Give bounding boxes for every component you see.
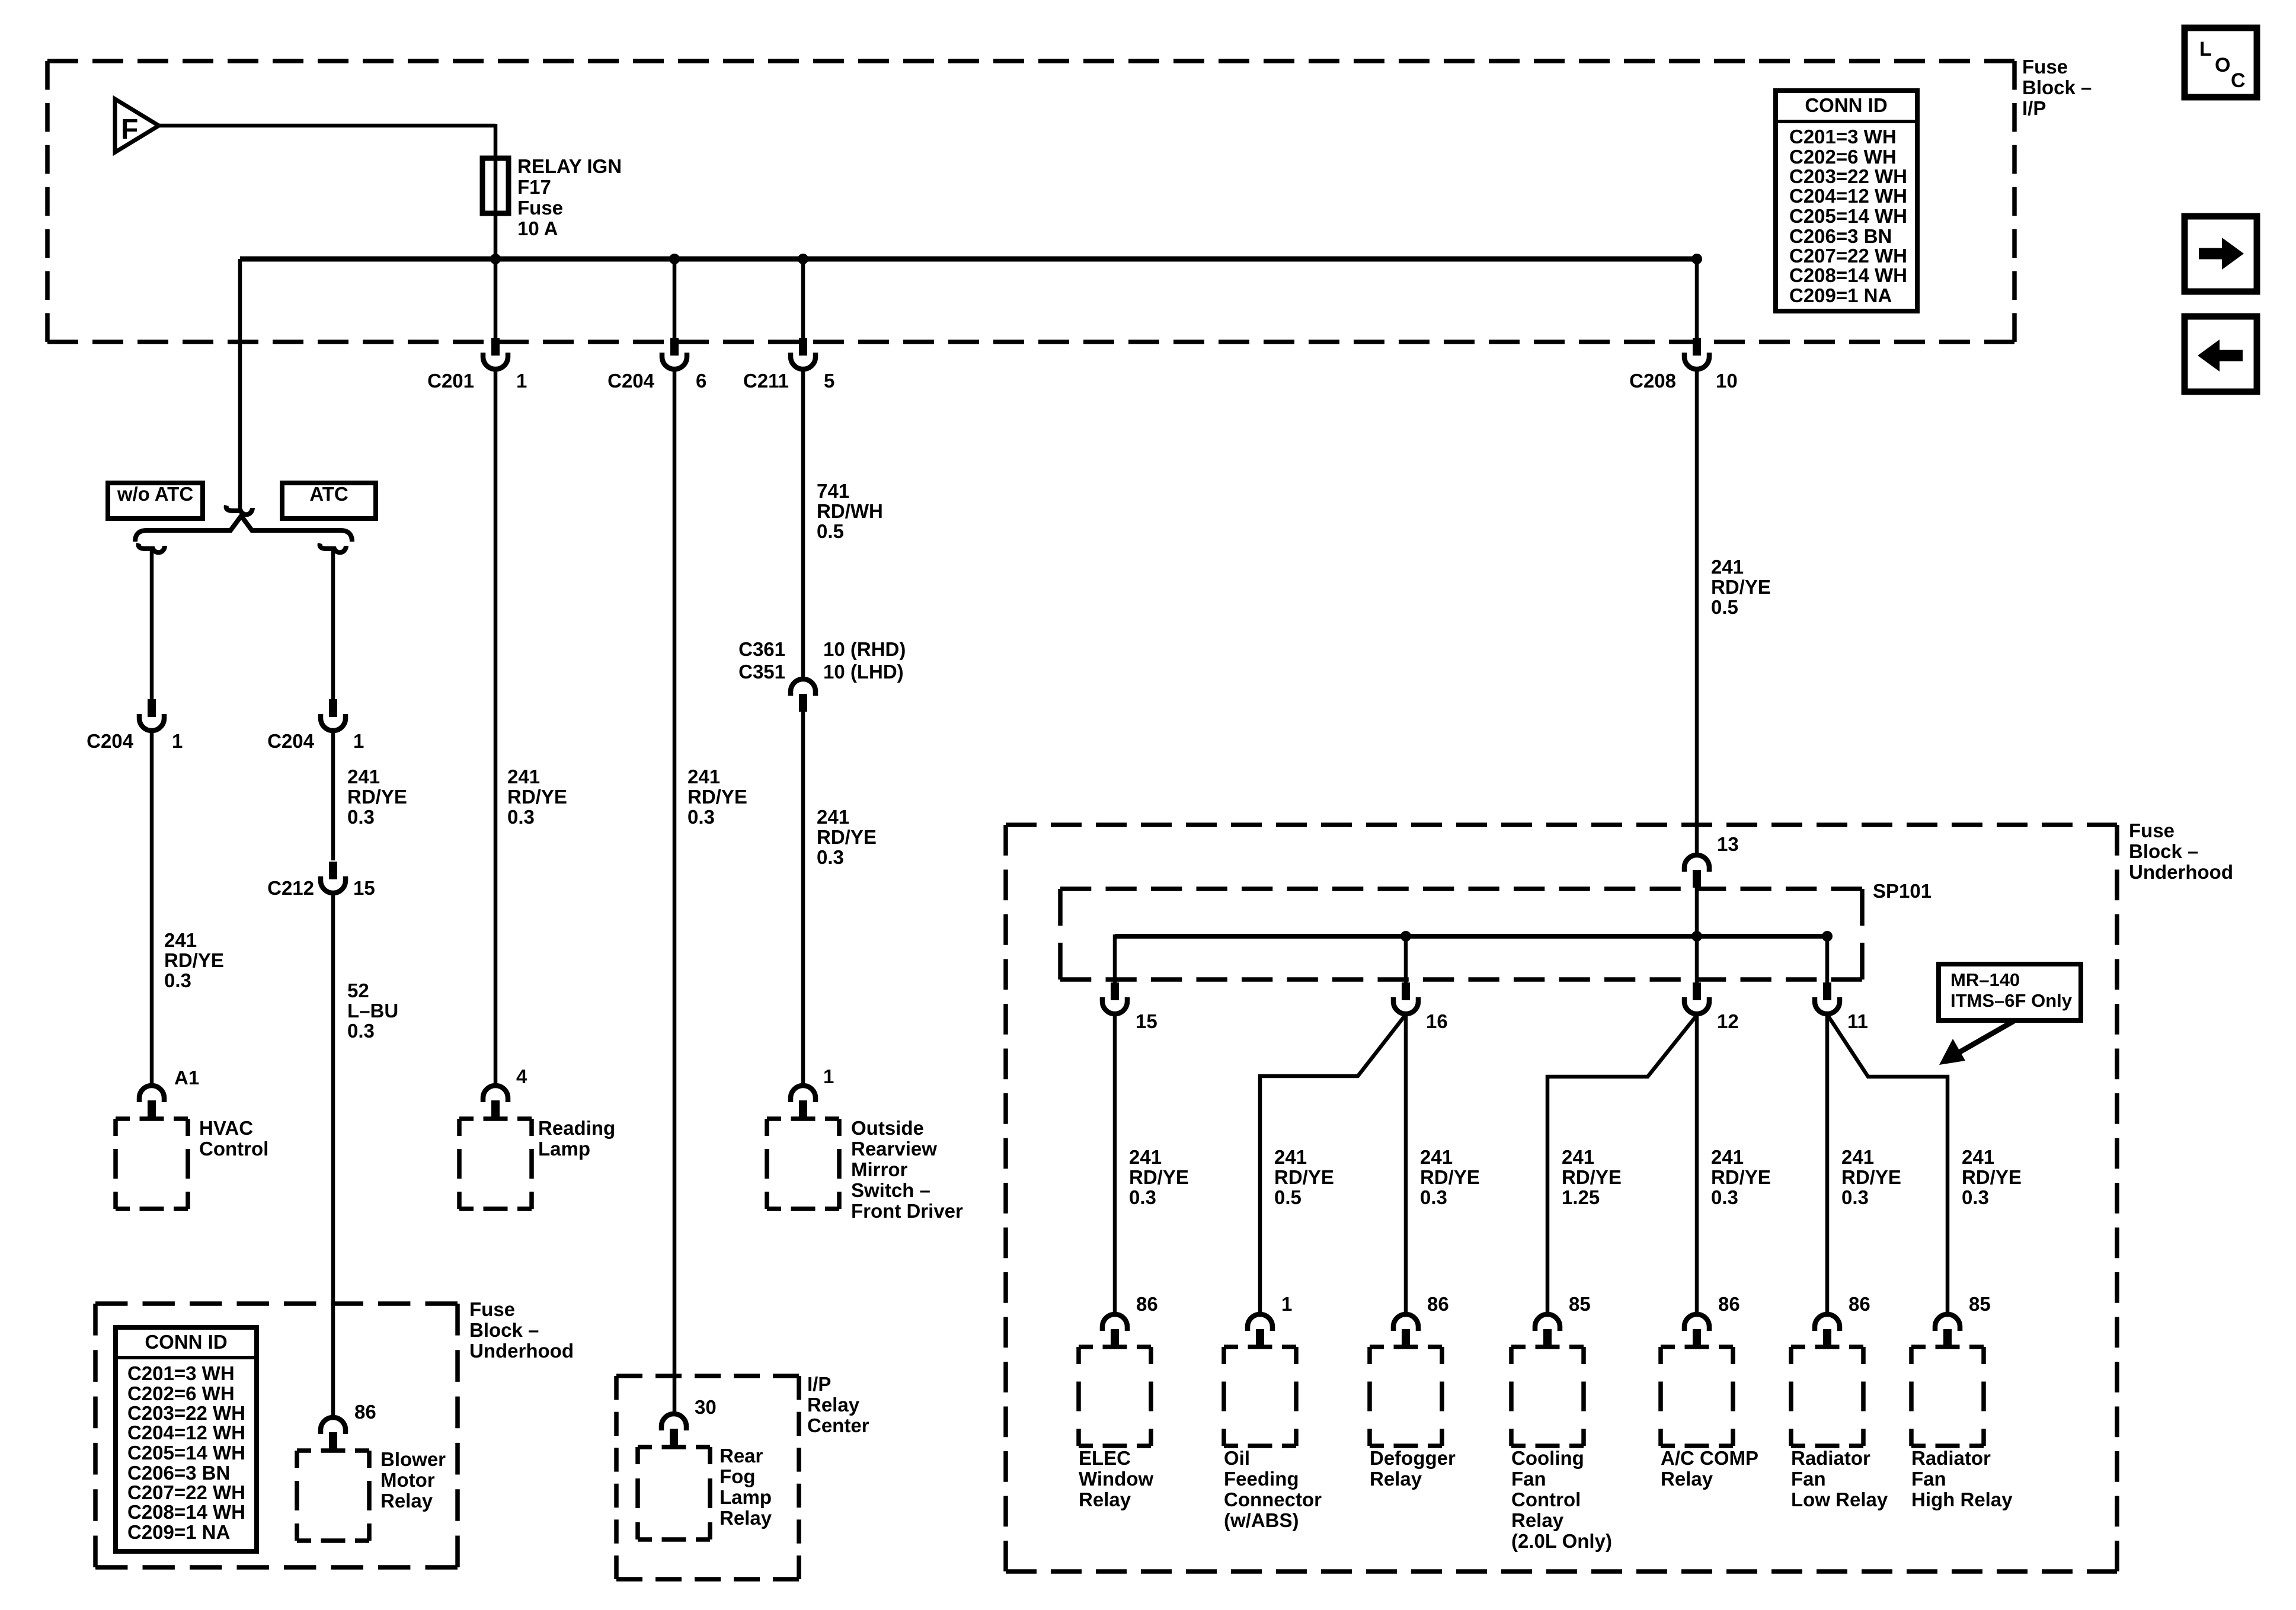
svg-text:C204: C204 — [607, 370, 655, 392]
wire to mirror switch — [801, 712, 805, 1086]
branch hook w/o ATC — [139, 543, 165, 552]
Oil Feeding Connector box — [1224, 1347, 1296, 1446]
CONN ID table (left) — [116, 1327, 257, 1551]
svg-text:w/o ATC: w/o ATC — [117, 483, 193, 505]
svg-text:I/P: I/P — [807, 1373, 831, 1395]
svg-text:86: 86 — [354, 1401, 376, 1423]
feed arrow F — [115, 99, 159, 152]
svg-text:11: 11 — [1847, 1010, 1868, 1032]
svg-text:Fuse: Fuse — [2022, 56, 2068, 78]
svg-text:1: 1 — [823, 1065, 834, 1087]
svg-text:Reading: Reading — [538, 1117, 615, 1139]
svg-text:0.3: 0.3 — [1962, 1186, 1989, 1208]
svg-text:F17: F17 — [517, 176, 551, 198]
connector C361/C351 — [791, 679, 816, 696]
A/C COMP Relay box — [1661, 1347, 1733, 1446]
svg-text:10 (LHD): 10 (LHD) — [823, 661, 904, 683]
svg-text:RD/YE: RD/YE — [1962, 1166, 2022, 1188]
svg-text:Relay: Relay — [1511, 1509, 1564, 1531]
svg-text:0.3: 0.3 — [687, 806, 715, 828]
Fuse Block - Underhood dashed box (left) — [95, 1304, 458, 1567]
svg-text:Front Driver: Front Driver — [851, 1200, 963, 1222]
svg-text:L: L — [2199, 38, 2212, 60]
svg-text:C202=6 WH: C202=6 WH — [127, 1382, 235, 1404]
connector 86 Radiator Fan Low Relay — [1815, 1314, 1840, 1331]
svg-text:Window: Window — [1079, 1468, 1153, 1490]
svg-text:C211: C211 — [743, 370, 789, 392]
right arrow box — [2185, 216, 2257, 292]
connector 85 Cooling Fan Control Relay — [1535, 1314, 1560, 1331]
svg-text:Rear: Rear — [720, 1445, 763, 1467]
Defogger Relay box — [1370, 1347, 1442, 1446]
svg-text:RD/YE: RD/YE — [1420, 1166, 1480, 1188]
Radiator Fan High Relay box — [1911, 1347, 1984, 1446]
svg-text:Underhood: Underhood — [469, 1340, 574, 1362]
connector 12 — [1693, 982, 1701, 1000]
svg-text:10: 10 — [1716, 370, 1738, 392]
connector 13 — [1684, 855, 1709, 872]
svg-text:15: 15 — [1136, 1010, 1157, 1032]
svg-text:Relay: Relay — [1079, 1489, 1131, 1510]
Outside Rearview Mirror Switch box — [767, 1119, 839, 1209]
svg-text:16: 16 — [1426, 1010, 1448, 1032]
svg-text:241: 241 — [1562, 1146, 1594, 1168]
Rear Fog Lamp Relay box — [638, 1447, 710, 1539]
svg-text:C209=1 NA: C209=1 NA — [127, 1521, 230, 1543]
connector C201 pin 1 — [491, 338, 500, 356]
connector 4 reading lamp — [483, 1086, 508, 1102]
svg-text:C203=22 WH: C203=22 WH — [127, 1402, 245, 1424]
svg-text:85: 85 — [1569, 1293, 1591, 1315]
connector 16 — [1402, 982, 1410, 1000]
svg-text:0.3: 0.3 — [507, 806, 535, 828]
connector C212 pin 15 — [329, 862, 337, 879]
svg-text:86: 86 — [1427, 1293, 1449, 1315]
svg-text:Fuse: Fuse — [517, 197, 563, 219]
svg-text:1: 1 — [353, 730, 364, 752]
connector C204 pin 6 — [670, 338, 679, 356]
Radiator Fan Low Relay box — [1791, 1347, 1863, 1446]
svg-text:Control: Control — [199, 1138, 268, 1160]
connector C204 pin 1 (ATC) — [329, 699, 337, 717]
svg-text:Relay: Relay — [380, 1490, 433, 1512]
junction dot 11 — [1822, 931, 1833, 942]
svg-text:C351: C351 — [738, 661, 785, 683]
Fuse Block - Underhood dashed box (right) — [1006, 825, 2117, 1571]
svg-text:0.3: 0.3 — [1711, 1186, 1738, 1208]
svg-text:0.3: 0.3 — [1420, 1186, 1447, 1208]
svg-text:Relay: Relay — [1661, 1468, 1713, 1490]
svg-text:C204: C204 — [267, 730, 315, 752]
svg-text:12: 12 — [1717, 1010, 1739, 1032]
svg-text:Fuse: Fuse — [2129, 820, 2175, 841]
svg-text:A/C COMP: A/C COMP — [1661, 1447, 1758, 1469]
svg-text:Lamp: Lamp — [720, 1486, 772, 1508]
svg-text:Fan: Fan — [1511, 1468, 1546, 1490]
svg-text:241: 241 — [1711, 1146, 1744, 1168]
svg-text:RD/YE: RD/YE — [817, 826, 877, 848]
svg-text:C207=22 WH: C207=22 WH — [1789, 245, 1907, 267]
HVAC Control box — [116, 1119, 188, 1209]
svg-text:Underhood: Underhood — [2129, 861, 2233, 883]
svg-text:C208=14 WH: C208=14 WH — [127, 1501, 245, 1523]
junction dot C208 column — [1691, 254, 1702, 264]
svg-text:86: 86 — [1849, 1293, 1870, 1315]
svg-text:241: 241 — [1129, 1146, 1162, 1168]
wire 11 branch to radiator fan high relay — [1827, 1014, 1948, 1314]
svg-text:0.3: 0.3 — [1129, 1186, 1156, 1208]
svg-text:C201=3 WH: C201=3 WH — [1789, 126, 1897, 148]
svg-text:C203=22 WH: C203=22 WH — [1789, 165, 1907, 187]
svg-text:0.3: 0.3 — [817, 846, 844, 868]
wire 11 to radiator fan low relay — [1825, 1014, 1830, 1314]
option split brace — [135, 517, 352, 542]
svg-text:RD/YE: RD/YE — [1711, 576, 1771, 598]
svg-text:C201=3 WH: C201=3 WH — [127, 1362, 235, 1384]
svg-text:1: 1 — [516, 370, 527, 392]
svg-text:Fog: Fog — [720, 1465, 755, 1487]
drop to 15 — [1113, 934, 1117, 985]
wire F to fuse column — [158, 124, 495, 128]
connector C208 pin 10 — [1693, 338, 1701, 356]
svg-text:C204=12 WH: C204=12 WH — [127, 1422, 245, 1443]
svg-text:Blower: Blower — [380, 1448, 446, 1470]
svg-text:C205=14 WH: C205=14 WH — [127, 1442, 245, 1464]
svg-text:Radiator: Radiator — [1791, 1447, 1870, 1469]
Cooling Fan Control Relay box — [1511, 1347, 1584, 1446]
svg-text:ELEC: ELEC — [1079, 1447, 1131, 1469]
connector 86 blower motor relay — [321, 1417, 346, 1434]
junction dot 16 — [1400, 931, 1411, 942]
option box ATC — [282, 483, 376, 518]
wire to reading lamp — [494, 371, 498, 1086]
svg-text:241: 241 — [1711, 556, 1744, 578]
connector 30 rear fog lamp relay — [661, 1414, 686, 1430]
svg-text:5: 5 — [824, 370, 834, 392]
svg-text:RD/YE: RD/YE — [1711, 1166, 1771, 1188]
svg-text:241: 241 — [1962, 1146, 1994, 1168]
wire 16 to defogger relay — [1404, 1014, 1408, 1314]
svg-text:C206=3 BN: C206=3 BN — [1789, 225, 1892, 247]
svg-text:Radiator: Radiator — [1911, 1447, 1991, 1469]
svg-text:O: O — [2215, 54, 2230, 76]
svg-text:Defogger: Defogger — [1370, 1447, 1456, 1469]
wire C212 to blower relay — [331, 895, 335, 1419]
svg-text:(w/ABS): (w/ABS) — [1224, 1509, 1299, 1531]
svg-text:Relay: Relay — [1370, 1468, 1422, 1490]
svg-text:241: 241 — [347, 766, 380, 788]
svg-text:RD/YE: RD/YE — [1841, 1166, 1901, 1188]
wire w/o ATC branch — [150, 551, 154, 699]
left arrow box — [2185, 316, 2257, 392]
svg-text:Switch –: Switch – — [851, 1179, 930, 1201]
connector A1 HVAC — [139, 1086, 164, 1102]
wire to C361 — [801, 371, 805, 679]
svg-text:CONN ID: CONN ID — [145, 1331, 227, 1353]
I/P Relay Center dashed box — [616, 1376, 799, 1579]
svg-text:C209=1 NA: C209=1 NA — [1789, 284, 1892, 306]
junction dot C211 column — [798, 254, 808, 264]
svg-text:C201: C201 — [427, 370, 474, 392]
connector 1 Oil Feeding Connector — [1248, 1314, 1272, 1331]
svg-text:C208=14 WH: C208=14 WH — [1789, 264, 1907, 286]
LOC legend box — [2185, 28, 2257, 97]
svg-text:Fan: Fan — [1911, 1468, 1946, 1490]
svg-text:Block –: Block – — [2129, 840, 2198, 862]
option box w/o ATC — [108, 483, 203, 518]
junction dot C204 column — [669, 254, 680, 264]
svg-text:10 (RHD): 10 (RHD) — [823, 638, 906, 660]
svg-text:C: C — [2231, 69, 2246, 92]
svg-text:C204: C204 — [87, 730, 134, 752]
connector 11 — [1823, 982, 1831, 1000]
svg-text:Fan: Fan — [1791, 1468, 1826, 1490]
svg-text:Relay: Relay — [807, 1394, 860, 1416]
connector 1 mirror switch — [791, 1086, 816, 1102]
wire to fuse block underhood — [1695, 371, 1699, 855]
svg-text:30: 30 — [695, 1396, 717, 1418]
svg-text:MR–140: MR–140 — [1950, 969, 2020, 990]
svg-text:241: 241 — [687, 766, 720, 788]
svg-text:Lamp: Lamp — [538, 1138, 590, 1160]
svg-text:741: 741 — [817, 480, 849, 502]
wire bus to ATC split — [238, 259, 242, 512]
svg-text:Rearview: Rearview — [851, 1138, 937, 1160]
drop to 12 — [1695, 936, 1699, 985]
svg-text:0.3: 0.3 — [164, 969, 191, 991]
svg-text:RD/YE: RD/YE — [164, 949, 224, 971]
svg-text:Motor: Motor — [380, 1469, 435, 1491]
svg-text:Relay: Relay — [720, 1507, 772, 1529]
svg-text:(2.0L Only): (2.0L Only) — [1511, 1530, 1612, 1552]
svg-text:85: 85 — [1969, 1293, 1991, 1315]
svg-text:HVAC: HVAC — [199, 1117, 253, 1139]
svg-text:13: 13 — [1717, 833, 1739, 855]
svg-text:C206=3 BN: C206=3 BN — [127, 1462, 230, 1484]
svg-text:C202=6 WH: C202=6 WH — [1789, 146, 1897, 168]
svg-text:Feeding: Feeding — [1224, 1468, 1299, 1490]
svg-text:Oil: Oil — [1224, 1447, 1250, 1469]
svg-text:Low Relay: Low Relay — [1791, 1489, 1888, 1510]
svg-text:86: 86 — [1136, 1293, 1158, 1315]
svg-text:SP101: SP101 — [1873, 880, 1932, 902]
svg-text:A1: A1 — [174, 1067, 199, 1089]
Reading Lamp box — [459, 1119, 532, 1209]
svg-text:I/P: I/P — [2022, 97, 2046, 119]
Blower Motor Relay box — [297, 1451, 369, 1541]
svg-text:241: 241 — [1841, 1146, 1874, 1168]
svg-text:Block –: Block – — [469, 1319, 539, 1341]
svg-text:C212: C212 — [267, 877, 314, 899]
connector C204 pin 1 (w/o ATC) — [148, 699, 156, 717]
svg-text:241: 241 — [1274, 1146, 1307, 1168]
connector 85 Radiator Fan High Relay — [1935, 1314, 1960, 1331]
svg-text:C208: C208 — [1629, 370, 1676, 392]
svg-text:0.5: 0.5 — [817, 520, 844, 542]
svg-text:Connector: Connector — [1224, 1489, 1322, 1510]
svg-text:0.3: 0.3 — [1841, 1186, 1869, 1208]
junction dot C201 column — [490, 254, 501, 264]
svg-text:RELAY IGN: RELAY IGN — [517, 155, 622, 177]
connector 86 ELEC Window Relay — [1102, 1314, 1127, 1331]
svg-text:L–BU: L–BU — [347, 1000, 398, 1022]
svg-text:1.25: 1.25 — [1562, 1186, 1600, 1208]
MR-140 arrow — [1957, 1021, 2014, 1054]
svg-text:Cooling: Cooling — [1511, 1447, 1584, 1469]
svg-text:ITMS–6F Only: ITMS–6F Only — [1950, 990, 2073, 1011]
svg-text:RD/YE: RD/YE — [1129, 1166, 1189, 1188]
connector 86 Defogger Relay — [1393, 1314, 1418, 1331]
MR-140 ITMS-6F Only callout box — [1939, 964, 2081, 1020]
svg-text:RD/YE: RD/YE — [1274, 1166, 1334, 1188]
svg-text:High Relay: High Relay — [1911, 1489, 2013, 1510]
svg-text:RD/WH: RD/WH — [817, 500, 883, 522]
connector C211 pin 5 — [799, 338, 807, 356]
svg-text:1: 1 — [172, 730, 183, 752]
wire end hook at split — [226, 505, 252, 514]
branch hook ATC — [320, 543, 346, 552]
svg-text:Center: Center — [807, 1414, 869, 1436]
svg-text:241: 241 — [164, 929, 197, 951]
wire C204 to C212 — [331, 732, 335, 860]
SP101 dashed box — [1060, 889, 1862, 980]
svg-text:Control: Control — [1511, 1489, 1581, 1510]
svg-text:4: 4 — [516, 1065, 527, 1087]
svg-text:C207=22 WH: C207=22 WH — [127, 1481, 245, 1503]
svg-text:241: 241 — [507, 766, 540, 788]
svg-text:F: F — [121, 114, 138, 145]
svg-text:ATC: ATC — [309, 483, 348, 505]
svg-text:Outside: Outside — [851, 1117, 924, 1139]
svg-text:15: 15 — [353, 877, 375, 899]
wire to HVAC control — [150, 732, 154, 1086]
svg-text:CONN ID: CONN ID — [1805, 94, 1887, 116]
wire 12 branch to cooling fan relay — [1547, 1014, 1697, 1314]
svg-text:86: 86 — [1718, 1293, 1740, 1315]
svg-text:0.5: 0.5 — [1274, 1186, 1302, 1208]
wire C204 drop — [673, 259, 677, 340]
wire C201 drop — [494, 259, 498, 340]
CONN ID table (top right) — [1776, 91, 1917, 311]
svg-text:C205=14 WH: C205=14 WH — [1789, 205, 1907, 227]
wire to rear fog lamp relay — [673, 371, 677, 1415]
wire ATC branch — [331, 551, 335, 699]
wire C211 drop — [801, 259, 805, 340]
connector 15 — [1111, 982, 1119, 1000]
svg-text:241: 241 — [1420, 1146, 1453, 1168]
svg-text:0.3: 0.3 — [347, 806, 375, 828]
svg-text:RD/YE: RD/YE — [347, 786, 407, 808]
main bus wire — [240, 257, 1699, 262]
wire 16 branch to oil feeding connector — [1260, 1014, 1406, 1314]
svg-text:Mirror: Mirror — [851, 1158, 908, 1180]
svg-text:RD/YE: RD/YE — [687, 786, 747, 808]
fuse F17 RELAY IGN 10A — [482, 158, 509, 213]
svg-text:6: 6 — [696, 370, 706, 392]
svg-text:241: 241 — [817, 806, 849, 828]
svg-text:Fuse: Fuse — [469, 1298, 515, 1320]
wire 15 to ELEC window relay — [1113, 1014, 1117, 1314]
svg-text:0.5: 0.5 — [1711, 596, 1738, 618]
SP101 splice bus — [1115, 934, 1829, 939]
wire C208 drop — [1695, 259, 1699, 340]
wire 13 to SP101 bus — [1695, 888, 1699, 936]
svg-text:C204=12 WH: C204=12 WH — [1789, 185, 1907, 207]
Fuse Block - I/P dashed box — [47, 61, 2014, 342]
junction dot 12 — [1691, 931, 1702, 942]
svg-text:Block –: Block – — [2022, 76, 2092, 98]
svg-text:52: 52 — [347, 980, 369, 1001]
drop to 16 — [1404, 936, 1408, 985]
svg-text:1: 1 — [1281, 1293, 1292, 1315]
wire 12 to A/C comp relay — [1695, 1014, 1699, 1314]
drop to 11 — [1825, 936, 1830, 985]
svg-text:C361: C361 — [738, 638, 785, 660]
wire down through fuse to bus — [494, 124, 498, 259]
ELEC Window Relay box — [1079, 1347, 1151, 1446]
svg-text:RD/YE: RD/YE — [507, 786, 567, 808]
connector 86 A/C COMP Relay — [1684, 1314, 1709, 1331]
svg-text:10 A: 10 A — [517, 217, 558, 239]
svg-text:0.3: 0.3 — [347, 1020, 375, 1042]
svg-text:RD/YE: RD/YE — [1562, 1166, 1622, 1188]
